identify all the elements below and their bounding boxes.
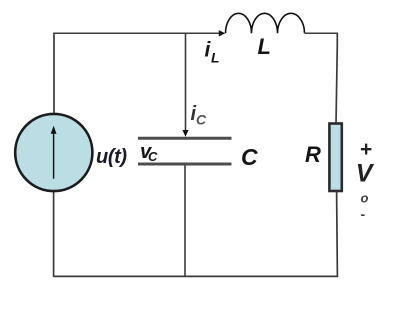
svg-text:R: R	[305, 142, 321, 167]
svg-text:C: C	[196, 112, 207, 128]
svg-text:u(t): u(t)	[96, 146, 127, 168]
inductor L (three loops)	[226, 13, 305, 33]
svg-text:L: L	[258, 34, 271, 59]
wire capacitor bottom vertical (cap to bottom rail)	[184, 165, 186, 277]
svg-text:C: C	[241, 144, 258, 170]
wire bottom rail	[53, 275, 338, 277]
svg-text:L: L	[211, 50, 220, 66]
arrowhead current iC	[182, 130, 188, 137]
current source arrow	[53, 132, 55, 179]
current source u(t) circle	[15, 114, 92, 191]
svg-text:+: +	[360, 138, 372, 161]
wire top rail (left corner to inductor)	[53, 32, 220, 34]
arrowhead current iL	[219, 30, 225, 36]
capacitor C top plate	[138, 137, 232, 140]
resistor R body	[329, 124, 341, 192]
wire source bottom vertical	[53, 189, 55, 277]
svg-text:-: -	[361, 206, 366, 222]
wire resistor bottom to bottom-right corner	[336, 191, 339, 276]
wire top-left vertical (source top to top rail)	[53, 33, 55, 115]
svg-text:o: o	[361, 191, 369, 206]
svg-text:C: C	[148, 149, 158, 164]
wire inductor to top-right corner	[305, 32, 338, 34]
capacitor C bottom plate	[138, 163, 232, 166]
svg-text:V: V	[356, 160, 375, 188]
wire top-right vertical (corner down to resistor)	[336, 33, 337, 124]
wire capacitor branch vertical (top rail down to cap)	[185, 33, 187, 131]
